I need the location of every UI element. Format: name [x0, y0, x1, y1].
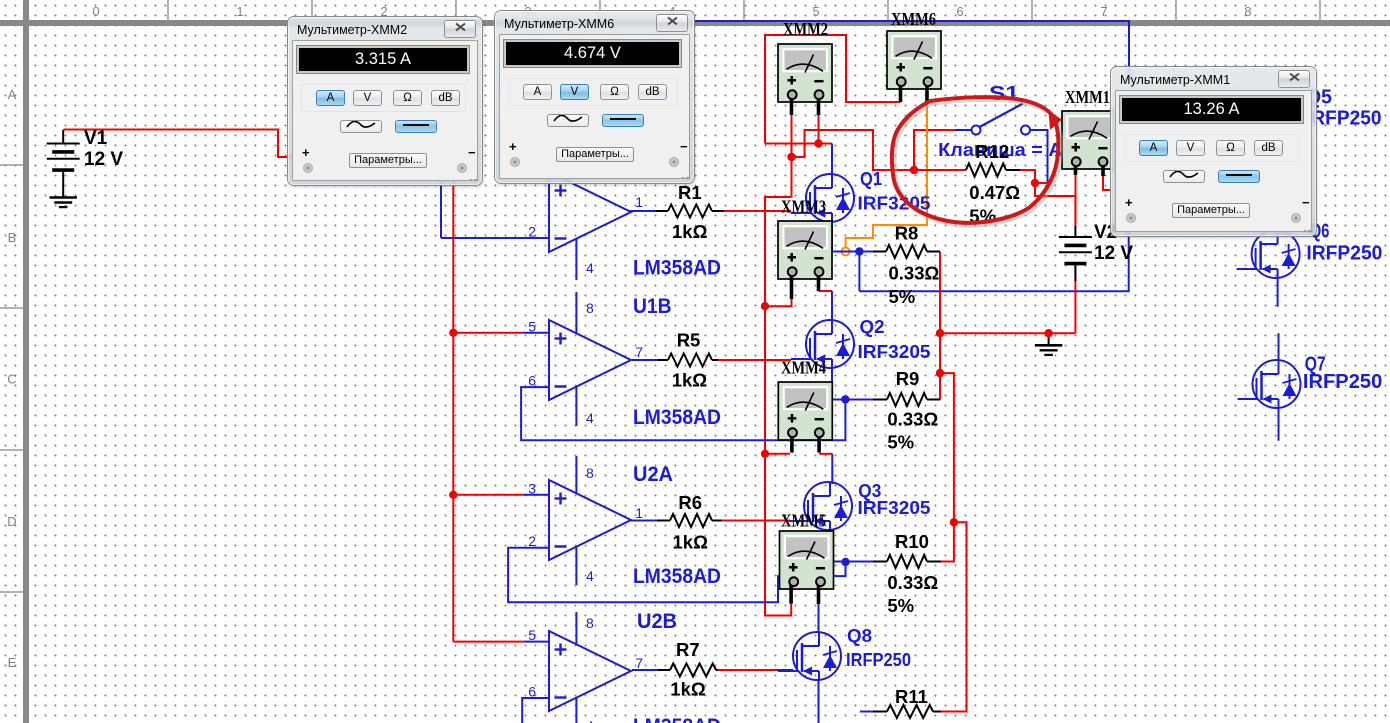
branch at 522 to R11 bus (red): [941, 522, 967, 711]
svg-text:7: 7: [1100, 4, 1107, 19]
feedback U2B partial (blue): [522, 698, 549, 723]
ground row horizontal (red): [940, 332, 1075, 334]
svg-text:5: 5: [812, 4, 819, 19]
junction dot: [950, 518, 958, 526]
red hand-drawn annotation ellipse around S1/R12: [894, 100, 1061, 226]
R12 output to battery V2 (red): [1020, 170, 1075, 226]
wire XMM4 plus branch: [765, 453, 790, 455]
instrument icon XMM3: [778, 221, 832, 279]
wire R5 right lead: [712, 359, 718, 361]
instrument icon XMM5: [780, 531, 834, 589]
battery V2: [1074, 226, 1076, 237]
wire V1 to XMM2 dialog (red): [64, 130, 298, 158]
wire XMM2 plus stub down (red): [791, 115, 793, 197]
svg-text:1kΩ: 1kΩ: [670, 679, 706, 700]
ruler tick top: [455, 0, 457, 20]
svg-text:0: 0: [92, 4, 99, 19]
junction dot blue: [855, 247, 863, 255]
wire left red bus vertical: [765, 197, 792, 616]
svg-text:Q8: Q8: [847, 625, 872, 646]
svg-text:6: 6: [956, 4, 963, 19]
svg-text:Q1: Q1: [860, 168, 882, 189]
wire R11 right lead red: [941, 711, 967, 713]
wire U1A pin2: [441, 237, 549, 239]
wire XMM5 minus to Q8 drain (blue): [818, 604, 820, 633]
R12 right lead: [1006, 169, 1020, 171]
svg-text:LM358AD: LM358AD: [633, 256, 721, 279]
switch S1: [972, 126, 981, 135]
svg-text:E: E: [8, 655, 17, 670]
ruler left bar: [23, 0, 29, 723]
resistor R7 zigzag: [670, 664, 716, 677]
svg-text:1: 1: [236, 4, 243, 19]
svg-text:2: 2: [528, 224, 536, 240]
svg-text:LM358AD: LM358AD: [633, 715, 721, 723]
wire R12 left lead red: [914, 169, 966, 171]
svg-text:IRF3205: IRF3205: [858, 497, 931, 518]
svg-text:8: 8: [586, 465, 594, 481]
op-amp power stub: [575, 239, 577, 280]
wire Q3 source down to XMM5 row (blue): [831, 529, 833, 562]
transistor Q2 IRF3205: [791, 320, 854, 368]
resistor R5 zigzag: [668, 354, 712, 367]
svg-text:U2B: U2B: [637, 610, 677, 633]
svg-text:IRFP250: IRFP250: [1303, 371, 1382, 393]
svg-text:5: 5: [528, 319, 536, 335]
orange wire XMM6 minus to R8 left node: [846, 102, 927, 248]
junction dot: [1031, 179, 1039, 187]
op-amp power stub: [575, 612, 577, 645]
wire top net (blue) from behind XMM6 dialog to XMM1 dialog: [694, 21, 1129, 82]
junction dot: [814, 139, 822, 147]
transistor Q6 IRFP250: [1237, 230, 1300, 278]
XMM1 plus stub to battery (red): [1075, 165, 1077, 226]
svg-text:R9: R9: [896, 368, 920, 389]
transistor Q3 IRF3205: [789, 482, 852, 530]
wire Q1 source to R8 node (blue): [831, 222, 833, 252]
svg-text:LM358AD: LM358AD: [633, 565, 721, 588]
svg-text:12 V: 12 V: [1094, 243, 1133, 264]
wire XMM4 minus to Q3 drain: [819, 453, 832, 455]
svg-text:5%: 5%: [889, 286, 916, 307]
svg-text:4: 4: [586, 410, 594, 426]
wire R9 right lead: [927, 399, 940, 401]
svg-text:XMM3: XMM3: [781, 196, 826, 216]
wire R10 left lead (blue): [831, 561, 873, 563]
svg-text:0.33Ω: 0.33Ω: [887, 409, 938, 430]
dialog window Multimeter-XMM1: [1111, 67, 1316, 236]
ruler tick left: [0, 307, 23, 309]
svg-text:4: 4: [586, 718, 594, 723]
junction dot: [761, 302, 769, 310]
svg-text:1kΩ: 1kΩ: [672, 370, 708, 391]
wire U2B pin5 branch: [453, 641, 524, 643]
wire red bus below XMM2 dialog (op-amp + inputs): [452, 177, 454, 642]
junction dot: [936, 369, 944, 377]
transistor Q1 IRF3205: [791, 174, 854, 222]
junction dot: [761, 450, 769, 458]
XMM1 minus stub wire (red): [1103, 165, 1112, 190]
op-amp U2A: [549, 480, 631, 560]
wire R6 right lead: [712, 520, 722, 522]
resistor R6 zigzag: [670, 514, 712, 527]
junction dot: [449, 329, 457, 337]
wire XMM2-plus jog to R12 row (red): [792, 130, 915, 170]
Q7 drain lead: [1278, 333, 1280, 360]
svg-text:4: 4: [586, 568, 594, 584]
svg-text:R8: R8: [895, 223, 919, 244]
ground V1: [50, 196, 77, 199]
svg-text:4: 4: [586, 260, 594, 276]
wire y143 horizontal: [765, 143, 832, 145]
ruler tick top: [311, 0, 313, 20]
wire Q3 drain (blue): [831, 454, 833, 484]
svg-text:0.33Ω: 0.33Ω: [887, 572, 938, 593]
svg-text:0.47Ω: 0.47Ω: [969, 182, 1020, 203]
wire Q1 drain (blue): [831, 144, 833, 176]
Q6 source lead: [1277, 278, 1279, 307]
wire R6 left lead: [631, 520, 657, 522]
wire XMM2 minus to XMM6 plus (red): [765, 35, 901, 144]
R8 right lead bus down (red): [939, 252, 941, 400]
svg-text:7: 7: [635, 344, 643, 360]
wire R9 left lead (blue): [832, 399, 873, 401]
feedback U2A (blue): [508, 548, 845, 603]
ground near V2: [1048, 333, 1050, 344]
resistor R12 zigzag: [966, 164, 1006, 177]
resistor R10 zigzag: [887, 555, 927, 568]
svg-text:R7: R7: [676, 639, 700, 660]
transistor Q7 IRFP250: [1238, 360, 1301, 408]
junction dot blue: [841, 558, 849, 566]
op-amp power stub: [575, 387, 577, 427]
svg-text:IRF3205: IRF3205: [858, 341, 931, 362]
dialog window Multimeter-XMM2: [288, 17, 482, 185]
svg-text:LM358AD: LM358AD: [633, 406, 721, 429]
ruler tick top: [1031, 0, 1033, 20]
wire R5 left lead: [632, 359, 658, 361]
Q7 source lead: [1278, 408, 1280, 441]
resistor R9 zigzag: [887, 393, 927, 406]
svg-text:A: A: [8, 87, 17, 102]
instrument icon XMM6: [887, 31, 941, 89]
svg-text:IRFP250: IRFP250: [1306, 108, 1382, 130]
svg-text:R5: R5: [677, 330, 701, 351]
svg-text:R12: R12: [975, 141, 1009, 162]
svg-text:0.33Ω: 0.33Ω: [889, 263, 940, 284]
wire R8 right lead: [927, 251, 940, 253]
svg-text:C: C: [7, 372, 16, 387]
junction dot blue: [841, 395, 849, 403]
svg-text:R11: R11: [895, 686, 928, 707]
svg-text:8: 8: [586, 300, 594, 316]
svg-text:XMM6: XMM6: [891, 9, 936, 29]
wire R8 left lead (blue): [832, 251, 873, 253]
wire R1 right lead: [712, 210, 724, 212]
svg-text:IRFP250: IRFP250: [846, 649, 911, 670]
svg-text:12 V: 12 V: [84, 149, 123, 170]
ruler tick left: [0, 449, 23, 451]
op-amp U1A: [549, 172, 631, 252]
ruler tick top: [167, 0, 169, 20]
ruler tick top: [1175, 0, 1177, 20]
svg-text:V1: V1: [84, 128, 108, 149]
svg-text:7: 7: [635, 655, 643, 671]
svg-text:5: 5: [528, 627, 536, 643]
battery V1: [62, 130, 64, 144]
instrument icon XMM2: [778, 44, 832, 102]
svg-text:B: B: [8, 230, 17, 245]
wire XMM2 dialog stub blue (U1A pin2 net): [440, 177, 442, 238]
Q6 gate lead ext: [1238, 268, 1255, 270]
svg-text:XMM4: XMM4: [781, 358, 826, 378]
op-amp U2B: [549, 631, 631, 711]
ruler tick top: [887, 0, 889, 20]
wire XMM3 plus branch: [765, 296, 792, 306]
switch S1 left branch (red then blue): [914, 130, 956, 170]
wire R7 left lead: [632, 669, 658, 671]
svg-text:D: D: [7, 514, 16, 529]
svg-text:1: 1: [635, 505, 643, 521]
wire dot to switch branch: [1035, 182, 1048, 184]
ruler tick left: [0, 591, 23, 593]
wire Q2 drain (blue): [831, 291, 833, 321]
feedback U1B (blue): [521, 387, 845, 440]
battery V2 bottom to ground row (red): [1074, 267, 1076, 334]
wire U1B pin5 branch: [453, 332, 522, 334]
svg-text:8: 8: [1244, 4, 1251, 19]
svg-text:6: 6: [528, 684, 536, 700]
junction dot: [449, 491, 457, 499]
svg-text:2: 2: [528, 533, 536, 549]
instrument icon XMM1: [1062, 111, 1116, 169]
svg-text:5%: 5%: [887, 595, 914, 616]
svg-text:U2A: U2A: [633, 463, 673, 486]
wire R8-left-node down to long horizontal (blue): [858, 252, 860, 292]
resistor R8 zigzag: [886, 245, 927, 258]
wire Q2 source down to XMM4 row (blue): [831, 367, 833, 399]
svg-text:1kΩ: 1kΩ: [673, 532, 709, 553]
wire R7 right lead: [716, 669, 718, 671]
svg-text:Q2: Q2: [860, 316, 885, 337]
svg-text:6: 6: [528, 373, 536, 389]
junction dot: [910, 166, 918, 174]
svg-text:XMM5: XMM5: [781, 511, 826, 531]
svg-text:5%: 5%: [887, 432, 914, 453]
ruler tick left: [0, 164, 23, 166]
svg-text:1kΩ: 1kΩ: [672, 221, 708, 242]
wire XMM2 minus stub down (red): [818, 115, 820, 144]
svg-text:XMM1: XMM1: [1065, 87, 1110, 107]
wire Q8 source down off-screen (blue): [818, 679, 820, 723]
ruler tick top: [1319, 0, 1321, 20]
svg-text:U1B: U1B: [633, 295, 672, 318]
ruler tick top: [599, 0, 601, 20]
dialog window Multimeter-XMM6: [495, 11, 694, 183]
op-amp power stub: [575, 456, 577, 494]
wire R11 right lead: [933, 711, 941, 713]
svg-text:3: 3: [528, 480, 536, 496]
op-amp power stub: [575, 698, 577, 723]
wire Q8 gate lead blue: [777, 669, 793, 671]
branch at 373 to lower bus (red): [940, 373, 954, 561]
op-amp power stub: [575, 292, 577, 334]
wire R10 right lead: [927, 561, 941, 563]
op-amp U1B: [549, 320, 631, 400]
ground symbol right: [1035, 344, 1062, 347]
instrument icon XMM4: [778, 382, 832, 440]
wire R11 left lead (blue): [860, 711, 873, 713]
wire R1 left lead: [630, 210, 656, 212]
junction dot: [787, 153, 795, 161]
transistor Q8 IRFP250: [778, 632, 841, 680]
ruler tick top: [743, 0, 745, 20]
svg-text:XMM2: XMM2: [783, 19, 828, 39]
icon terminal stubs (black): [790, 98, 794, 115]
junction dot: [936, 329, 944, 337]
switch S1 right branch (blue): [1030, 130, 1048, 183]
svg-text:1: 1: [635, 194, 643, 210]
wire U2A pin3 branch: [453, 494, 524, 496]
resistor R11 zigzag: [887, 705, 933, 718]
svg-text:IRFP250: IRFP250: [1306, 242, 1382, 264]
wire XMM3 minus to Q2 drain: [819, 290, 833, 292]
svg-text:R1: R1: [678, 182, 702, 203]
svg-text:R6: R6: [678, 492, 702, 513]
wire below XMM1 dialog down to long horizontal (blue): [859, 227, 1128, 291]
op-amp power stub: [575, 547, 577, 586]
ruler top bar: [0, 20, 1390, 26]
svg-text:R10: R10: [895, 531, 929, 552]
junction dot: [1044, 329, 1052, 337]
svg-text:8: 8: [586, 615, 594, 631]
resistor R1 zigzag: [668, 205, 712, 218]
